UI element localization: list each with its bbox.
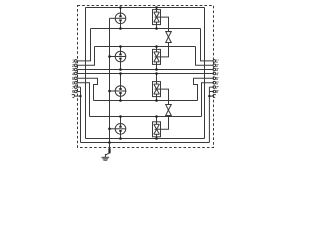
wire terminal 5' link bbox=[194, 78, 214, 100]
wire gas tube ground rail bbox=[109, 18, 111, 142]
node rail F4 bbox=[108, 128, 111, 131]
node top bus U1 bbox=[155, 6, 158, 9]
wire line 5 bbox=[94, 100, 198, 102]
wire D2 to U4 midtap bbox=[159, 116, 169, 130]
wire U1 midtap to D1 bbox=[159, 17, 169, 31]
wire U3 midtap to D2 bbox=[159, 89, 169, 104]
wire line 3 (mid A) terminal 3 to 3' bbox=[77, 69, 213, 71]
enclosure dashed border bbox=[78, 6, 214, 148]
wire terminal 2 link bbox=[77, 47, 94, 66]
node earth junction left bbox=[79, 95, 81, 97]
suppressor U1 bbox=[153, 8, 161, 29]
terminal 6 bbox=[72, 80, 77, 85]
terminal 8' bbox=[213, 89, 219, 94]
wire ground ring right vertical bbox=[204, 8, 206, 139]
wire shield stub right bbox=[209, 95, 213, 97]
wire earth drop bbox=[109, 143, 111, 149]
wire F4 side tap bbox=[110, 128, 116, 130]
node top bus F1 bbox=[119, 6, 122, 9]
wire line 4 (mid B) terminal 4 to 4' bbox=[77, 73, 213, 75]
node rail F3 bbox=[108, 90, 111, 93]
ground symbol bbox=[101, 154, 109, 160]
shield clamp mark right bbox=[213, 95, 216, 98]
svg-text:8': 8' bbox=[216, 89, 220, 94]
wire top bus bbox=[86, 7, 205, 9]
terminal 4' bbox=[213, 72, 219, 77]
node inner bottom U4 bbox=[155, 137, 158, 140]
wire terminal 8 stub bbox=[77, 91, 80, 93]
wire terminal 6' link bbox=[202, 83, 214, 117]
suppressor U4 bbox=[153, 117, 161, 139]
suppressor diode D1 bbox=[166, 32, 172, 43]
gas discharge tube F4 bbox=[115, 117, 126, 139]
wire terminal 2' link bbox=[196, 47, 214, 66]
node line5 U3 bbox=[155, 99, 158, 102]
terminal 2 bbox=[72, 63, 77, 68]
wire bottom earth bus bbox=[81, 142, 210, 144]
wire F1 side tap bbox=[110, 17, 116, 19]
terminal 3 bbox=[72, 67, 77, 72]
wire line 6 bbox=[90, 116, 202, 118]
wire earth bus right riser bbox=[208, 87, 210, 142]
wire F2 side tap bbox=[110, 56, 116, 58]
node rail earth bus bbox=[108, 141, 111, 144]
wire terminal 8' stub bbox=[209, 91, 213, 93]
terminal 2' bbox=[213, 63, 219, 68]
wire earth link bbox=[105, 153, 109, 155]
wire inner bottom bus bbox=[86, 138, 205, 140]
gas discharge tube F1 bbox=[115, 8, 126, 29]
terminal 5 bbox=[72, 76, 77, 81]
node midB F3 bbox=[119, 72, 122, 75]
wire terminal 1' link bbox=[201, 29, 214, 61]
wire F3 side tap bbox=[110, 90, 116, 92]
node line1 F1 bbox=[119, 27, 122, 30]
wire terminal 7 stub bbox=[77, 86, 80, 88]
wire terminal 5 link bbox=[77, 78, 97, 100]
terminal 1 bbox=[72, 59, 77, 64]
terminal 7 bbox=[72, 85, 77, 90]
wire D1 to U2 midtap bbox=[159, 43, 169, 57]
suppressor U3 bbox=[153, 74, 161, 101]
terminal 5' bbox=[213, 76, 219, 81]
wire terminal 7' stub bbox=[209, 86, 213, 88]
terminal 4 bbox=[72, 72, 77, 77]
terminal 3' bbox=[213, 67, 219, 72]
node midA F2 bbox=[119, 68, 122, 71]
shield clamp mark left bbox=[72, 95, 75, 98]
node rail F2 bbox=[108, 55, 111, 58]
node line6 U4 bbox=[155, 115, 158, 118]
wire terminal 6 link bbox=[77, 83, 89, 117]
gas discharge tube F2 bbox=[115, 47, 126, 70]
node line2 U2 bbox=[155, 45, 158, 48]
gas discharge tube F3 bbox=[115, 74, 126, 101]
wire shield stub left bbox=[75, 95, 81, 97]
wire line 2 bbox=[95, 46, 196, 48]
wire ground ring left vertical bbox=[85, 8, 87, 139]
terminal 8 bbox=[72, 89, 77, 94]
node line5 F3 bbox=[119, 99, 122, 102]
wire terminal 1 link bbox=[77, 29, 90, 61]
wire line 1 bbox=[91, 28, 201, 30]
node line1 U1 bbox=[155, 27, 158, 30]
node earth junction right bbox=[208, 95, 210, 97]
terminal 7' bbox=[213, 85, 219, 90]
terminal 6' bbox=[213, 80, 219, 85]
node line6 F4 bbox=[119, 115, 122, 118]
node line2 F2 bbox=[119, 45, 122, 48]
suppressor U2 bbox=[153, 47, 161, 70]
suppressor diode D2 bbox=[166, 105, 172, 116]
earth terminal bar bbox=[108, 148, 110, 153]
wire earth bus left riser bbox=[80, 87, 82, 142]
node inner bottom F4 bbox=[119, 137, 122, 140]
node midB U3 bbox=[155, 72, 158, 75]
node midA U2 bbox=[155, 68, 158, 71]
terminal 1' bbox=[213, 59, 219, 64]
